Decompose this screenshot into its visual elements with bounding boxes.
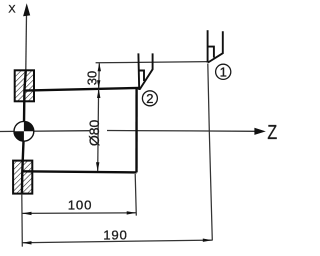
tool 2 [138,53,152,90]
tool 1 [208,30,223,62]
stock surface line [96,62,208,63]
dimension 100 [22,174,137,247]
chuck jaw top [15,70,34,101]
Z axis [0,130,90,133]
tool 2 label [142,91,157,106]
svg-text:Z: Z [267,121,277,144]
svg-text:Ø80: Ø80 [86,119,102,146]
workpiece left edge / spindle line [22,70,26,193]
dimension phi-80 [86,89,102,172]
svg-text:2: 2 [146,91,153,106]
workpiece bottom edge [22,171,136,172]
chuck jaw bottom [13,161,32,194]
Z axis arrowhead [254,128,265,135]
dimension 190 [22,64,212,245]
svg-text:100: 100 [68,197,92,212]
X axis arrowhead [23,3,30,16]
Z axis right segment [107,130,255,133]
dimension line 100 [22,212,136,215]
origin symbol [14,121,34,141]
extension line right [135,174,136,216]
extension line left (shared with 190) [21,194,24,247]
workpiece outline [22,70,139,193]
X axis [25,7,28,71]
dimension 30 [85,63,101,88]
svg-text:1: 1 [220,64,227,79]
svg-text:190: 190 [103,228,127,243]
tool 1 label [216,64,231,79]
extension line right (from tool 1 tip) [208,64,213,241]
svg-text:X: X [8,3,15,15]
workpiece top edge [25,88,139,91]
svg-text:30: 30 [85,71,100,85]
dimension line 190 [22,240,212,243]
workpiece right edge [135,88,138,172]
